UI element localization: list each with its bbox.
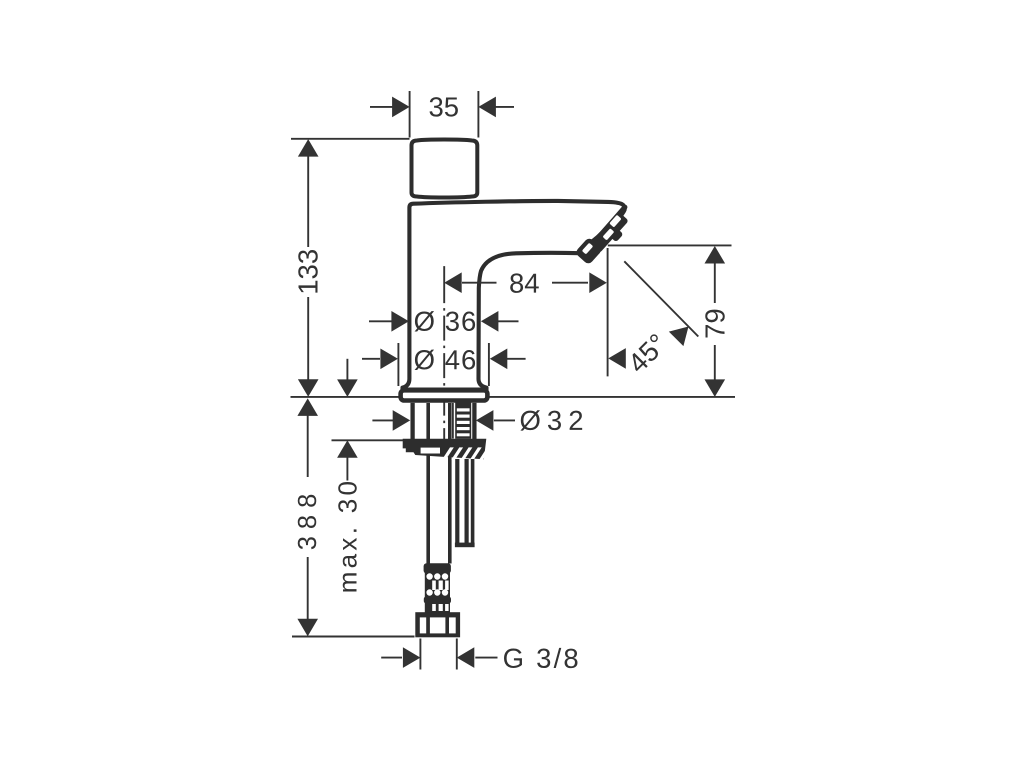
arrow 388 top bbox=[297, 398, 318, 416]
arrow 84 left bbox=[444, 272, 462, 293]
arrow dia36 left bbox=[391, 311, 409, 332]
extension line nut bottom (y=636.5) bbox=[292, 636, 415, 638]
arrow 79 top bbox=[705, 246, 726, 264]
hose collar bbox=[424, 563, 451, 573]
45 degree leader line bbox=[624, 261, 698, 336]
thin inner pipe line bbox=[452, 403, 454, 439]
supply tube left edge bbox=[426, 403, 430, 564]
svg-text:79: 79 bbox=[699, 308, 730, 339]
arrow 35 right bbox=[478, 97, 496, 118]
aerator outlet face white bbox=[582, 243, 593, 255]
aerator edge stroke along spout cut bbox=[583, 204, 625, 250]
mounting washer nut wedge bbox=[403, 439, 491, 460]
mounting surface line bbox=[291, 396, 736, 398]
shank right side below flange bbox=[472, 403, 476, 440]
dimension diameter 46 bbox=[362, 343, 526, 386]
supply tube right edge bbox=[448, 403, 452, 564]
svg-text:max. 30: max. 30 bbox=[333, 478, 363, 594]
arrow G38 right bbox=[457, 647, 475, 668]
dimension 133 vertical bbox=[307, 155, 309, 380]
dimension 79 vertical bbox=[714, 263, 716, 382]
svg-text:G 3/8: G 3/8 bbox=[503, 643, 581, 674]
dimension 388 vertical bbox=[307, 415, 309, 620]
dimension G 3/8 bbox=[381, 639, 497, 670]
svg-text:Ø 36: Ø 36 bbox=[414, 306, 478, 337]
arrow max30 down bbox=[337, 379, 358, 397]
svg-text:133: 133 bbox=[293, 249, 324, 295]
extension line 45deg vertical (x=608.2) bbox=[607, 248, 609, 376]
arrow G38 left bbox=[403, 647, 421, 668]
dimension 84 horizontal bbox=[462, 282, 588, 284]
dimension 35 with extension lines bbox=[370, 91, 514, 138]
dimension diameter 32 bbox=[372, 419, 515, 421]
centerline of tap (dash-dot) bbox=[443, 266, 445, 439]
arrow 45deg on leader bbox=[669, 319, 696, 346]
extension line top of tap (y=138.8) bbox=[291, 138, 410, 140]
threaded rod lines below washer bbox=[455, 459, 459, 543]
aerator outlet ring bbox=[575, 237, 604, 266]
arrow dia32 right bbox=[476, 410, 494, 431]
arrow dia46 left bbox=[380, 349, 398, 370]
arrow max30 up bbox=[337, 440, 358, 458]
svg-text:84: 84 bbox=[509, 268, 540, 299]
arrow 35 left bbox=[392, 97, 410, 118]
arrow dia36 right bbox=[481, 311, 499, 332]
aerator body tube segment bbox=[589, 211, 629, 253]
arrow 133 bottom bbox=[298, 379, 319, 397]
svg-text:Ø32: Ø32 bbox=[519, 405, 589, 436]
shank left side below flange bbox=[410, 403, 414, 440]
base flange escutcheon bbox=[401, 390, 488, 400]
extension line aerator level (y=245.4) bbox=[608, 244, 732, 246]
handle knob bbox=[412, 140, 478, 198]
arrow dia32 left bbox=[393, 410, 411, 431]
aerator nozzle at 45deg bbox=[575, 202, 638, 268]
aerator tooth segment bbox=[606, 225, 624, 243]
G3/8 connection nut bbox=[415, 612, 460, 637]
faucet body with spout bbox=[403, 201, 625, 390]
svg-text:Ø 46: Ø 46 bbox=[414, 344, 478, 375]
svg-text:35: 35 bbox=[428, 91, 459, 122]
aerator white slot C bbox=[609, 215, 621, 228]
dimension diameter 36 bbox=[369, 320, 519, 322]
svg-text:388: 388 bbox=[294, 487, 322, 551]
rod end cap bbox=[455, 543, 475, 548]
threaded shank with thread stripes bbox=[455, 402, 471, 439]
arrow 45deg on vertical bbox=[608, 348, 626, 369]
arrow 79 bottom bbox=[705, 379, 726, 397]
dimension max. 30 bbox=[332, 359, 404, 481]
aerator white slot B bbox=[603, 228, 615, 240]
braided hose section bbox=[424, 573, 451, 614]
arrow 84 right bbox=[589, 272, 607, 293]
arrow dia46 right bbox=[490, 349, 508, 370]
arrow 133 top bbox=[298, 139, 319, 157]
arrow 388 bottom bbox=[297, 619, 318, 637]
